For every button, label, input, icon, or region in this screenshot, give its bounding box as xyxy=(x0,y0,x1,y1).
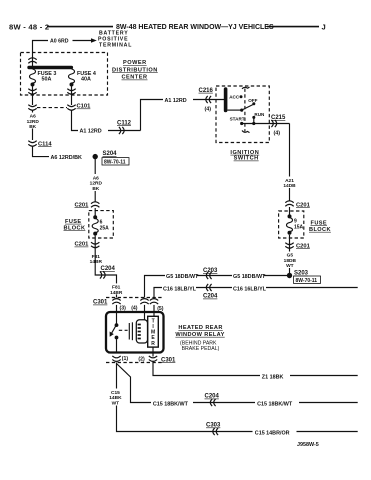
fuse block dashed box right xyxy=(279,211,304,238)
label A6 12RD BK stacked xyxy=(26,113,41,129)
reference box 8W-70-11 xyxy=(294,276,321,283)
wire pin1 down with branch xyxy=(117,363,358,432)
wire fuse3 down to PDC edge xyxy=(32,87,34,106)
connector C201 right upper xyxy=(285,201,293,207)
svg-text:G5: G5 xyxy=(287,253,294,259)
svg-text:(4): (4) xyxy=(205,106,212,112)
svg-text:S204: S204 xyxy=(103,151,118,157)
svg-text:G5 18DB/WT: G5 18DB/WT xyxy=(233,274,266,280)
svg-text:C16 16LB/YL: C16 16LB/YL xyxy=(233,286,267,292)
wire into fuse 9 xyxy=(289,207,291,215)
core bar left xyxy=(128,323,130,340)
connector C101 chevrons right wire xyxy=(67,105,75,111)
svg-text:A21: A21 xyxy=(285,178,294,184)
svg-text:A1 12RD: A1 12RD xyxy=(80,129,102,135)
fuse 6 element xyxy=(92,219,98,233)
svg-text:WT: WT xyxy=(286,263,294,269)
svg-text:40A: 40A xyxy=(81,76,91,82)
svg-text:START: START xyxy=(230,116,245,121)
wire C16 to relay pin 5 xyxy=(154,288,358,298)
svg-text:DISTRIBUTION: DISTRIBUTION xyxy=(112,67,158,73)
svg-text:14BR: 14BR xyxy=(90,259,103,265)
wire G5 from S203 to relay pin 4 xyxy=(145,276,290,298)
power distribution center dashed box xyxy=(21,53,108,96)
wire from S204 down xyxy=(94,157,96,202)
svg-text:8W-70-11: 8W-70-11 xyxy=(296,278,318,284)
PDC exit connector right wire xyxy=(67,89,75,95)
label G5 18DB/WT right xyxy=(232,271,264,279)
svg-text:(4): (4) xyxy=(131,305,138,311)
svg-text:C303: C303 xyxy=(206,423,221,429)
contact dot ACC xyxy=(240,95,243,98)
svg-text:15A: 15A xyxy=(294,225,304,231)
svg-text:J: J xyxy=(322,22,326,31)
svg-text:WINDOW RELAY: WINDOW RELAY xyxy=(175,332,224,338)
fuse 3 element xyxy=(30,69,36,83)
connector C201 lower xyxy=(91,242,99,248)
svg-text:A6: A6 xyxy=(30,114,36,120)
svg-text:C215: C215 xyxy=(271,115,286,121)
svg-text:C204: C204 xyxy=(101,266,116,272)
svg-text:C201: C201 xyxy=(296,202,311,208)
label A1 12RD upper xyxy=(163,96,193,104)
wire below fuse 6 xyxy=(94,236,96,248)
svg-text:(1): (1) xyxy=(122,356,129,362)
bus bar in PDC xyxy=(27,66,73,69)
svg-text:FUSE: FUSE xyxy=(65,219,82,225)
pin 2 connector xyxy=(149,356,157,362)
svg-text:Z1 18BK: Z1 18BK xyxy=(262,375,284,381)
connector C303 chevrons xyxy=(213,428,218,435)
svg-text:12RD: 12RD xyxy=(27,119,40,125)
svg-text:8W - 48 - 2: 8W - 48 - 2 xyxy=(9,22,49,31)
svg-text:TERMINAL: TERMINAL xyxy=(99,43,132,49)
timer bottom wire xyxy=(152,347,154,356)
svg-text:C201: C201 xyxy=(75,202,90,208)
switch lever xyxy=(242,105,253,111)
wire from start contact out to C215 xyxy=(242,123,290,125)
svg-text:(2): (2) xyxy=(138,356,145,362)
wire A21 down right column xyxy=(289,124,291,201)
svg-text:C204: C204 xyxy=(203,294,218,300)
label C15 18BK/WT left xyxy=(151,399,193,407)
fuse 6 bottom dot xyxy=(93,232,97,236)
splice S203 xyxy=(287,273,292,278)
svg-text:A6 12RD/BK: A6 12RD/BK xyxy=(51,155,83,161)
wire A1 12RD from C101 to C112 xyxy=(72,111,141,131)
connector C201 right lower xyxy=(285,243,293,249)
svg-text:8W-48 HEATED REAR WINDOW—YJ VE: 8W-48 HEATED REAR WINDOW—YJ VEHICLES xyxy=(116,24,274,31)
svg-text:C203: C203 xyxy=(203,268,218,274)
core bar right xyxy=(131,322,133,340)
wire A6 left below C101 xyxy=(32,111,34,141)
wire A0 from battery corner xyxy=(33,41,94,67)
pin 1 connector xyxy=(112,356,120,362)
svg-text:C15 18BK/WT: C15 18BK/WT xyxy=(257,402,293,408)
label C16 18LB/YL xyxy=(162,284,196,292)
svg-text:9: 9 xyxy=(294,218,297,224)
label Z1 18BK xyxy=(260,372,290,380)
svg-text:FUSE: FUSE xyxy=(311,220,328,226)
svg-text:A1 12RD: A1 12RD xyxy=(165,98,187,104)
wire down to S204 corner xyxy=(33,147,96,157)
connector C101 chevrons left wire xyxy=(28,105,36,111)
fuse 9 element xyxy=(287,218,293,232)
wire A1 12RD riser to ignition switch xyxy=(141,100,225,131)
svg-text:SWITCH: SWITCH xyxy=(234,156,259,162)
contact dot START xyxy=(240,122,243,125)
svg-text:BK: BK xyxy=(29,124,36,130)
relay top dashed connector line xyxy=(106,297,162,299)
fuse block dashed box left xyxy=(89,211,114,238)
connector C204 chevrons xyxy=(100,271,105,278)
svg-text:C101: C101 xyxy=(77,104,92,110)
svg-text:8W-70-11: 8W-70-11 xyxy=(104,159,126,165)
pin 5 connector xyxy=(150,299,158,305)
run contact tick xyxy=(253,117,255,123)
svg-text:C301: C301 xyxy=(93,300,108,306)
pin 3 wire into relay xyxy=(116,305,118,325)
svg-text:J958W-5: J958W-5 xyxy=(297,442,319,448)
pin 4 connector xyxy=(140,299,148,305)
wire label F81 14BR stacked xyxy=(88,253,103,264)
arrow to battery positive terminal xyxy=(91,38,97,42)
wire fuse4 down to PDC edge xyxy=(71,87,73,106)
relay switch bottom contact xyxy=(115,336,119,340)
svg-text:G5 18DB/WT: G5 18DB/WT xyxy=(166,274,199,280)
fuse 9 bottom dot xyxy=(288,231,292,235)
lever pivot dot xyxy=(240,109,243,112)
connector C101 dashed link xyxy=(37,107,67,109)
pin 5 wire into relay xyxy=(153,305,155,316)
fuse 4 node dot xyxy=(70,83,74,87)
svg-text:C15 18BK/WT: C15 18BK/WT xyxy=(153,402,189,408)
label C15 14BR/OR xyxy=(253,428,297,436)
svg-text:ACC: ACC xyxy=(229,95,240,100)
linkage hook bottom xyxy=(242,131,250,133)
label C15 18BK/WT right xyxy=(255,399,299,407)
header rule left xyxy=(47,26,113,28)
svg-text:C112: C112 xyxy=(117,120,132,126)
svg-text:A6: A6 xyxy=(93,175,99,181)
label power distribution center xyxy=(112,60,158,81)
svg-text:BK: BK xyxy=(92,186,99,192)
svg-text:HEATED REAR: HEATED REAR xyxy=(178,325,222,331)
svg-text:BLOCK: BLOCK xyxy=(64,225,86,231)
connector C215 chevrons xyxy=(271,120,276,127)
svg-text:12RD: 12RD xyxy=(90,181,103,187)
svg-text:C201: C201 xyxy=(296,243,311,249)
connector C112 chevrons xyxy=(119,127,124,134)
connector into PDC on wire A0 xyxy=(28,58,36,64)
label A1 12RD xyxy=(78,126,108,134)
svg-text:C216: C216 xyxy=(199,88,214,94)
wire label A6 12RD/BK xyxy=(49,153,93,161)
label G5 18DB WT stacked xyxy=(283,252,298,269)
wire below fuse 9 xyxy=(289,235,291,249)
svg-text:C114: C114 xyxy=(38,141,52,147)
wire Z1 from pin 2 xyxy=(153,363,358,376)
branch diagonal to C15 18BK/WT line xyxy=(117,364,358,403)
heated rear window relay box xyxy=(106,312,164,353)
splice S204 xyxy=(93,154,98,159)
mechanical linkage dashed line xyxy=(244,89,246,132)
fuse 4 element xyxy=(69,69,75,83)
wire label F81 14BR stacked lower xyxy=(109,283,124,294)
wire down to S203 xyxy=(289,249,291,276)
junction dot on start wire xyxy=(252,122,255,125)
pin 4 wire into relay xyxy=(144,305,146,320)
svg-text:(4): (4) xyxy=(274,131,281,137)
svg-text:C15 14BR/OR: C15 14BR/OR xyxy=(255,431,290,437)
wire label A0 6RD xyxy=(48,36,73,44)
svg-text:C15: C15 xyxy=(111,390,120,396)
svg-text:F81: F81 xyxy=(112,285,121,291)
label C16 16LB/YL xyxy=(232,284,266,292)
switch lever wire from bar xyxy=(227,109,241,111)
svg-text:14BK: 14BK xyxy=(109,395,122,401)
relay coil body xyxy=(136,320,147,343)
linkage dashes xyxy=(119,329,128,331)
svg-text:14BR: 14BR xyxy=(110,290,123,296)
wire into fuse 6 xyxy=(94,208,96,216)
connector C114 chevrons xyxy=(28,141,36,147)
relay switch lever with arrowhead xyxy=(112,325,117,334)
pin 3 connector xyxy=(112,299,120,305)
contact dot OFF xyxy=(252,102,255,105)
relay switch top contact xyxy=(115,323,119,327)
relay coil teeth xyxy=(138,324,141,326)
linkage hook top xyxy=(242,87,250,89)
fuse 6 top dot xyxy=(93,215,97,219)
contact dot RUN xyxy=(252,116,255,119)
label A21 14DB stacked xyxy=(283,177,298,189)
timer box xyxy=(148,316,159,347)
svg-text:RUN: RUN xyxy=(254,112,265,117)
svg-text:F81: F81 xyxy=(92,254,101,260)
svg-text:25A: 25A xyxy=(100,225,110,231)
svg-text:14DB: 14DB xyxy=(283,183,296,189)
svg-text:18DB: 18DB xyxy=(284,258,297,264)
ignition switch dashed box xyxy=(216,86,269,143)
svg-text:A0 6RD: A0 6RD xyxy=(50,39,69,45)
reference box 8W-70-11 xyxy=(102,158,129,165)
svg-text:50A: 50A xyxy=(42,76,52,82)
svg-text:C201: C201 xyxy=(75,242,90,248)
connector C204 chevrons on C16 wire xyxy=(206,284,211,291)
svg-text:C301: C301 xyxy=(161,357,176,363)
svg-text:C16 18LB/YL: C16 18LB/YL xyxy=(163,286,197,292)
svg-text:(3): (3) xyxy=(120,305,127,311)
relay switch bottom wire xyxy=(116,338,118,353)
connector C201 upper xyxy=(91,202,99,208)
wire jog through C204 xyxy=(95,248,116,298)
fuse 9 top dot xyxy=(288,214,292,218)
svg-text:OFF: OFF xyxy=(248,98,257,103)
PDC exit connector left wire xyxy=(28,89,36,95)
header rule right xyxy=(267,26,319,28)
svg-text:BRAKE PEDAL): BRAKE PEDAL) xyxy=(182,346,220,352)
label G5 18DB/WT left xyxy=(165,271,197,279)
connector C216 chevrons xyxy=(206,96,211,103)
connector C203 chevrons xyxy=(206,272,211,279)
svg-text:R: R xyxy=(151,341,155,347)
fuse 3 node dot xyxy=(31,83,35,87)
label A6 12RD BK stacked xyxy=(88,174,103,191)
label C15 14BK WT stacked xyxy=(108,389,123,406)
relay bottom dashed connector line xyxy=(106,362,162,364)
connector C204 chevrons bottom xyxy=(210,399,215,406)
timer vertical text xyxy=(151,318,155,346)
svg-text:POWER: POWER xyxy=(123,60,147,66)
svg-text:WT: WT xyxy=(112,400,120,406)
svg-text:CENTER: CENTER xyxy=(122,75,148,81)
svg-text:BLOCK: BLOCK xyxy=(309,227,331,233)
ignition switch input bar xyxy=(224,87,228,112)
